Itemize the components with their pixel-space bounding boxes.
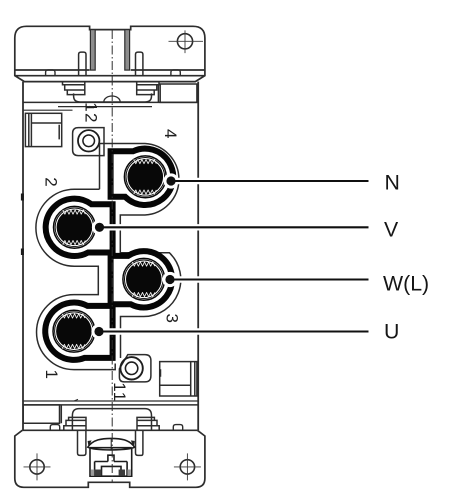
bottom flange top edge [22,429,197,431]
top right box [158,84,197,102]
ear hole circle [177,34,192,49]
flange bump right [171,70,180,76]
svg-text:W(L): W(L) [383,272,429,296]
bottom step plates left [64,417,86,429]
pin hole ring bottom outer [120,357,142,379]
BOTTOM CENTER MECHANISM [23,405,159,456]
ear bottom line left [15,69,90,71]
leader casing N [171,178,369,184]
top flange outline [15,26,205,81]
leader line W [170,278,369,280]
tab wall shade left [90,30,95,71]
socket 2 disc [54,206,96,248]
bottom skirt [72,409,151,431]
pin hole pad top (pad 12) [73,128,104,156]
ear bottom line right [131,69,205,71]
latch stub [108,455,114,461]
mounting circle left [30,460,44,474]
contact shape socket3 [111,251,172,307]
mounting crosshair right [174,453,201,480]
skirt bump [104,96,120,102]
step plates right [137,82,159,95]
body ledge line full [23,101,198,103]
svg-text:4: 4 [161,129,180,140]
latch inner rect [102,466,122,476]
tab wall shade right [125,30,130,71]
left edge nub lower [21,249,24,256]
bottom left box [23,405,61,423]
left edge nub upper [21,194,24,201]
TERMINAL LABELS [383,171,429,344]
lens end cap left [88,440,92,447]
svg-text:N: N [385,171,400,195]
pocket socket4+socket3 right meander [100,144,181,359]
contact shape socket1 [45,302,112,359]
socket 4 disc [124,156,166,198]
leader line U [99,330,369,332]
bottom hook post left [78,430,86,455]
flange bump left [46,70,55,76]
svg-text:11: 11 [110,382,129,402]
latch corner shade left [91,470,94,476]
body left edge [22,82,24,431]
leader dot U [94,327,103,336]
leader dot N [166,176,175,185]
small arrow top [86,106,94,108]
pin hole ring top outer [78,130,99,151]
svg-text:1: 1 [42,370,61,381]
LATCH [88,438,135,476]
bottom flange bump right [173,425,182,431]
BOTTOM FLANGE [15,425,205,488]
small arrow bottom [74,399,81,401]
body right edge [197,82,199,431]
MAIN BODY SIDES [23,82,198,431]
leader casing V [100,224,369,230]
leader dot V [95,223,104,232]
bottom step plates right [137,417,159,429]
body ledge line center [58,106,152,108]
body ledge line left [23,109,73,111]
mounting crosshair left [24,453,51,480]
svg-text:V: V [384,218,399,242]
leader line V [100,226,369,228]
contact shape socket4 [111,149,174,205]
center skirt [74,93,152,102]
leader line N [171,180,369,182]
pin hole ring bottom inner [125,362,137,374]
bottom flange bump left [50,425,59,431]
PIN NUMBER LABELS (rotated) [42,102,182,402]
socket 3 disc [123,258,165,300]
socket 1 disc [53,310,95,352]
keying rect bottom-right [160,362,197,396]
hook post left [79,52,86,76]
ear hole crosshair [169,30,204,53]
mounting circle right [180,460,194,474]
latch corner shade right [127,470,130,476]
svg-text:2: 2 [42,177,61,188]
latch box inner sides [95,462,128,477]
bottom flange outline [15,430,205,487]
svg-text:U: U [384,320,399,344]
latch lens split [110,439,112,450]
step plates left [63,82,85,95]
CENTER DASH-DOT LINE [111,30,113,483]
bottom hook post right [136,430,143,455]
leader casing U [99,328,369,334]
leader dot W [165,275,174,284]
hook post right [136,52,143,76]
svg-text:3: 3 [163,314,182,325]
keying rect top-left [25,113,61,146]
pin hole pad bottom (pad 11) [119,355,150,382]
pocket left vertical socket4 [99,144,101,190]
THICK CONTACT SHAPES [45,149,173,360]
lens end cap right [131,440,135,447]
HOUSING TOP FLANGE [15,26,205,81]
POCKET MEANDER (thin outline around contact shapes) [36,144,181,370]
pocket socket2+socket1 left meander [36,189,115,369]
pin hole ring top inner [83,135,95,147]
leader casing W [170,276,369,282]
contact shape socket2 [46,199,113,256]
flange inner line [15,75,205,77]
BOTTOM SECTION LINES [23,400,198,402]
TOP CENTER MECHANISM [63,52,197,102]
latch box [90,448,132,477]
latch spring lens [88,438,135,450]
svg-text:12: 12 [82,102,101,123]
